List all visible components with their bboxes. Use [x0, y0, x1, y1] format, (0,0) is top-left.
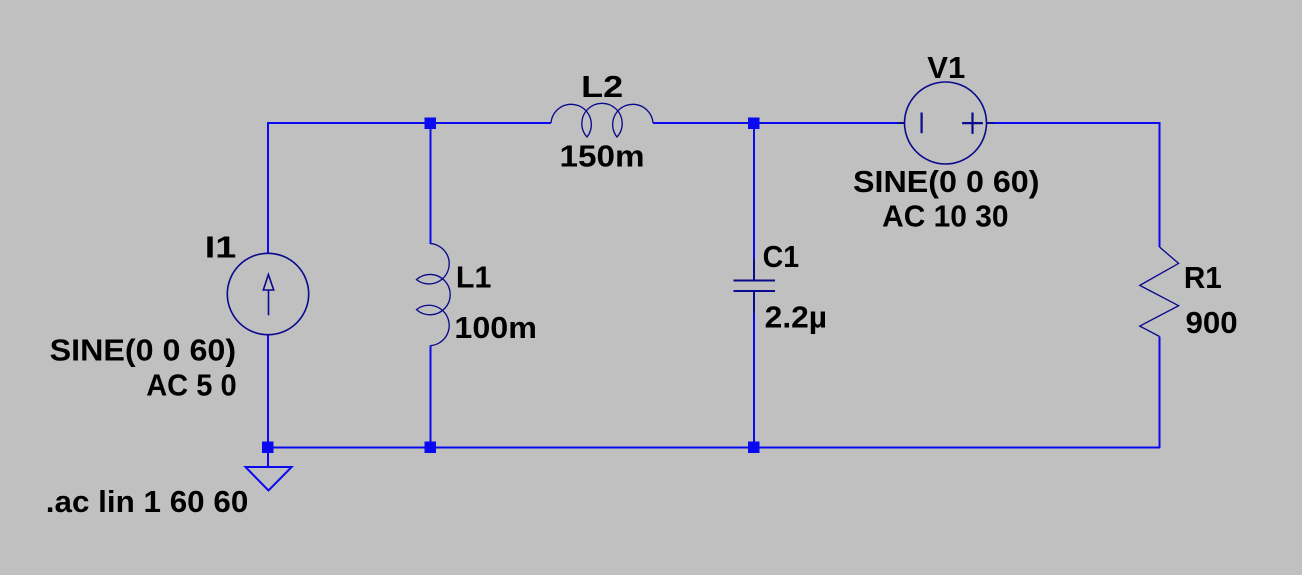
svg-text:AC 10 30: AC 10 30	[882, 198, 1008, 233]
svg-text:.ac lin 1 60 60: .ac lin 1 60 60	[46, 484, 249, 519]
wire top rail left segment	[267, 122, 551, 124]
junction at L1 top node	[425, 118, 437, 130]
junction at L1 bottom node	[425, 442, 437, 454]
wire left rail lower	[267, 334, 269, 448]
inductor L1	[417, 244, 451, 346]
junction at ground node	[262, 442, 274, 454]
wire bottom rail	[267, 446, 1160, 448]
capacitor C1	[733, 259, 775, 313]
wire top rail right segment	[993, 122, 1160, 124]
svg-text:I1: I1	[205, 230, 237, 265]
wire C1 top lead	[753, 122, 755, 259]
svg-text:L1: L1	[456, 260, 492, 295]
wire L1 bottom lead	[429, 346, 431, 449]
svg-text:SINE(0 0 60): SINE(0 0 60)	[50, 333, 237, 368]
voltage source V1	[898, 82, 995, 164]
svg-text:SINE(0 0 60): SINE(0 0 60)	[853, 164, 1040, 199]
junction at C1 bottom node	[748, 442, 760, 454]
current source I1	[227, 253, 308, 334]
wire L1 top lead	[429, 122, 431, 244]
svg-text:150m: 150m	[560, 139, 645, 174]
wire left rail upper	[267, 122, 269, 254]
wire C1 bottom lead	[753, 313, 755, 448]
wire right rail upper	[1158, 122, 1160, 247]
svg-text:R1: R1	[1184, 260, 1222, 295]
svg-text:100m: 100m	[454, 310, 537, 345]
svg-text:C1: C1	[763, 239, 800, 274]
svg-text:2.2µ: 2.2µ	[765, 299, 827, 334]
wire top rail middle segment	[653, 122, 899, 124]
svg-text:AC 5 0: AC 5 0	[146, 368, 237, 403]
inductor L2	[551, 103, 653, 137]
svg-text:V1: V1	[927, 50, 965, 85]
svg-text:900: 900	[1186, 305, 1238, 340]
junction at C1 top node	[748, 118, 760, 130]
ground	[246, 448, 292, 491]
svg-text:L2: L2	[581, 69, 623, 104]
resistor R1	[1140, 247, 1179, 337]
wire right rail lower	[1158, 337, 1160, 449]
